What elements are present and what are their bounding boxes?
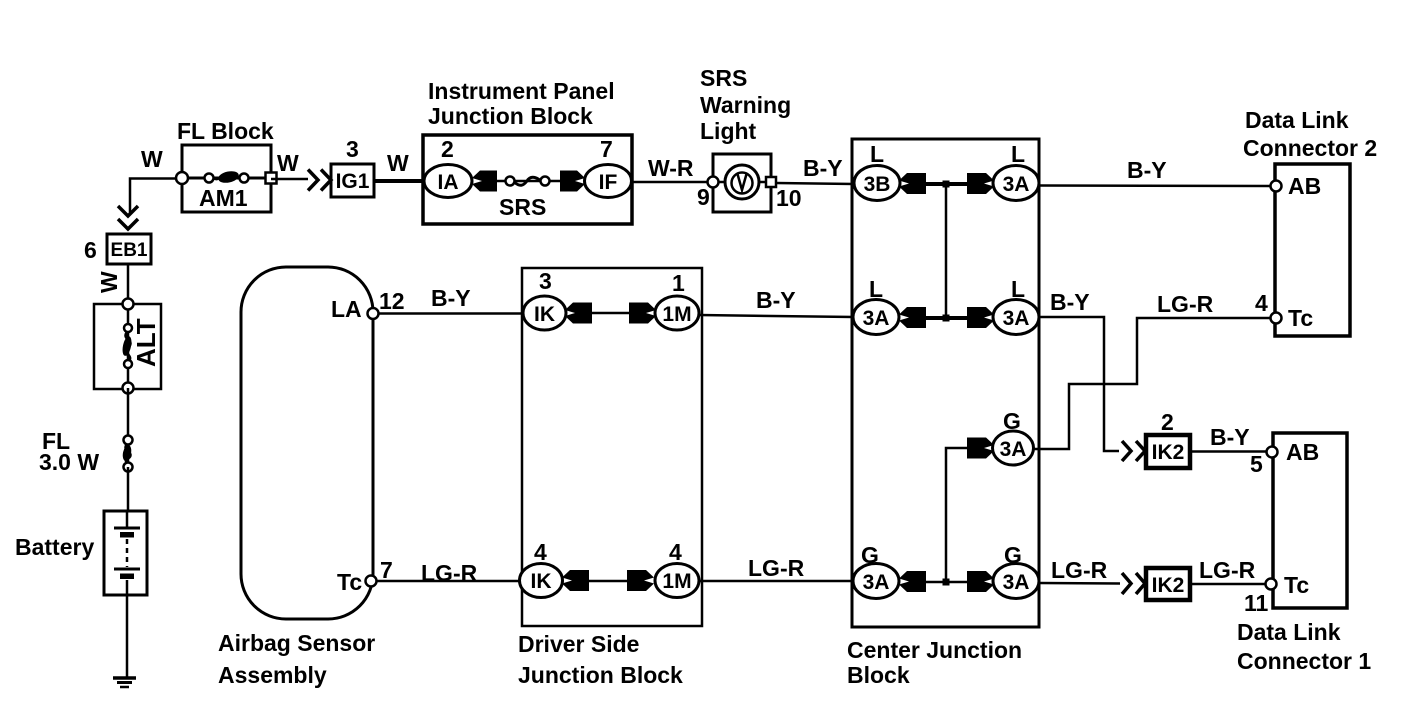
- node FL Block left: [176, 172, 188, 184]
- svg-text:L: L: [870, 141, 884, 167]
- fuse box IK2 lower: [1146, 568, 1190, 600]
- SRS warning light bulb: [713, 154, 771, 212]
- pin 4 label DSJB left: [534, 539, 547, 565]
- wire LA to IK: [373, 312, 524, 315]
- label W rotated: [96, 271, 122, 293]
- junction dot row4: [943, 579, 950, 586]
- label L above row2 right 3A: [1011, 276, 1025, 302]
- label LA: [331, 296, 362, 322]
- svg-text:LA: LA: [331, 296, 362, 322]
- svg-text:Warning: Warning: [700, 92, 791, 118]
- svg-text:3A: 3A: [863, 307, 890, 330]
- svg-text:Connector 1: Connector 1: [1237, 648, 1371, 674]
- label B-Y LA-IK: [431, 285, 471, 311]
- svg-text:Light: Light: [700, 118, 757, 144]
- svg-text:3.0 W: 3.0 W: [39, 449, 99, 475]
- label G above row4 right 3A: [1004, 542, 1022, 568]
- svg-text:9: 9: [697, 184, 710, 210]
- svg-text:LG-R: LG-R: [1051, 557, 1108, 583]
- svg-text:3: 3: [346, 136, 359, 162]
- svg-text:5: 5: [1250, 451, 1263, 477]
- connector 3B: [854, 166, 900, 201]
- svg-text:1M: 1M: [662, 570, 691, 593]
- wire IK2 to DLC1 AB: [1190, 450, 1266, 453]
- wire IG1 to junction block: [374, 179, 423, 183]
- FL Block box: [182, 145, 271, 212]
- fusible link AM1: [182, 169, 271, 211]
- jumper wire row1 CJB: [920, 182, 970, 186]
- wire CJB row1 to DLC2 AB: [1039, 184, 1271, 187]
- terminal AB DLC2: [1271, 173, 1322, 199]
- svg-text:IK: IK: [534, 303, 555, 326]
- wire EB1 to ALT: [127, 264, 130, 304]
- wire IF to warning light: [632, 181, 713, 184]
- label Data Link Connector 2: [1243, 107, 1377, 161]
- down arrows into EB1: [118, 206, 138, 229]
- pin 2 label IK2: [1161, 409, 1174, 435]
- svg-text:B-Y: B-Y: [756, 287, 796, 313]
- svg-text:Driver Side: Driver Side: [518, 631, 639, 657]
- arrow right row4 CJB: [967, 571, 994, 592]
- label Airbag Sensor Assembly: [218, 630, 375, 688]
- pin 4 label DSJB right: [669, 539, 682, 565]
- label B-Y above step: [1050, 289, 1090, 315]
- connector 1M row1: [655, 296, 699, 330]
- svg-text:3A: 3A: [1000, 438, 1027, 461]
- arrow left row1 CJB: [899, 173, 926, 194]
- center junction block box: [852, 139, 1039, 627]
- svg-text:L: L: [1011, 141, 1025, 167]
- label LG-R after IK2 lower: [1199, 557, 1256, 583]
- stepped wire LG-R row3 to DLC2 Tc: [1032, 318, 1270, 449]
- connector 3A row2 left: [853, 300, 899, 335]
- wire 1M to CJB row4: [699, 580, 854, 583]
- feed wire row4 to row3: [946, 448, 968, 582]
- connector IA: [424, 165, 472, 198]
- wire W top-left corner: [130, 179, 182, 214]
- wire light to center junction block: [776, 183, 854, 184]
- fuse box EB1: [107, 234, 151, 264]
- arrows into IK2 upper: [1122, 441, 1145, 461]
- label Tc airbag: [337, 569, 362, 595]
- svg-text:AB: AB: [1286, 439, 1319, 465]
- svg-text:IK2: IK2: [1152, 574, 1185, 597]
- fuse box IK2 upper: [1146, 435, 1190, 468]
- svg-text:2: 2: [441, 136, 454, 162]
- terminal LA: [368, 308, 379, 319]
- pin 6 label: [84, 237, 97, 263]
- svg-text:1M: 1M: [662, 303, 691, 326]
- label Battery: [15, 534, 94, 560]
- svg-text:W-R: W-R: [648, 155, 694, 181]
- svg-text:7: 7: [600, 136, 613, 162]
- arrow left row2 DSJB: [562, 570, 589, 591]
- svg-text:LG-R: LG-R: [1157, 291, 1214, 317]
- alternator ALT box: [94, 304, 161, 389]
- arrow left row1 DSJB: [565, 303, 592, 324]
- connector 3A row4 left: [853, 564, 899, 599]
- svg-text:IK2: IK2: [1152, 441, 1185, 464]
- pin 1 label DSJB: [672, 270, 685, 296]
- svg-text:3: 3: [539, 268, 552, 294]
- svg-text:Center Junction: Center Junction: [847, 637, 1022, 663]
- label Instrument Panel Junction Block: [428, 78, 615, 129]
- label LG-R Tc-IK: [421, 560, 478, 586]
- arrow left row4 CJB: [899, 571, 926, 592]
- svg-text:4: 4: [669, 539, 682, 565]
- svg-text:1: 1: [672, 270, 685, 296]
- label Driver Side Junction Block: [518, 631, 683, 688]
- connector IF: [585, 165, 632, 198]
- svg-text:Tc: Tc: [1288, 305, 1313, 331]
- stepped wire B-Y row2 to IK2: [1039, 317, 1119, 451]
- terminal 10: [766, 177, 802, 211]
- wire Battery to ground: [126, 595, 129, 678]
- svg-text:Airbag Sensor: Airbag Sensor: [218, 630, 375, 656]
- connector 3A row4 right: [993, 564, 1039, 599]
- label LG-R to DLC2: [1157, 291, 1214, 317]
- ground: [113, 678, 136, 687]
- wire IK2 lower to DLC1 Tc: [1190, 583, 1266, 586]
- jumper wire row2 CJB: [920, 316, 970, 320]
- svg-text:IK: IK: [531, 570, 552, 593]
- svg-text:B-Y: B-Y: [1127, 157, 1167, 183]
- label SRS fuse: [499, 194, 546, 220]
- pin 3 label DSJB: [539, 268, 552, 294]
- svg-text:B-Y: B-Y: [431, 285, 471, 311]
- label B-Y after IK2: [1210, 424, 1250, 450]
- label W after IG1: [387, 150, 409, 176]
- arrows into IK2 lower: [1122, 573, 1145, 594]
- svg-text:AM1: AM1: [199, 185, 248, 211]
- svg-text:Data Link: Data Link: [1237, 619, 1341, 645]
- label SRS Warning Light: [700, 65, 791, 144]
- svg-text:12: 12: [379, 288, 405, 314]
- svg-text:Block: Block: [847, 662, 910, 688]
- label L above row1 3A: [1011, 141, 1025, 167]
- label FL 3.0 W: [39, 428, 99, 475]
- svg-text:AB: AB: [1288, 173, 1321, 199]
- label W right of FL Block: [277, 150, 299, 176]
- svg-text:W: W: [387, 150, 409, 176]
- pin 7 label: [600, 136, 613, 162]
- svg-text:SRS: SRS: [700, 65, 747, 91]
- svg-text:IF: IF: [599, 171, 618, 194]
- pin 2 label: [441, 136, 454, 162]
- arrows into IG1: [308, 170, 331, 191]
- svg-text:4: 4: [1255, 290, 1268, 316]
- wire 1M to CJB row2: [699, 315, 854, 317]
- svg-text:W: W: [141, 146, 163, 172]
- data link connector 2 box: [1275, 164, 1350, 336]
- svg-text:SRS: SRS: [499, 194, 546, 220]
- label FL Block: [177, 118, 274, 144]
- svg-text:EB1: EB1: [111, 240, 148, 261]
- label 12: [379, 288, 405, 314]
- wire ALT to FL fusible link: [127, 388, 130, 436]
- svg-text:IA: IA: [438, 171, 459, 194]
- svg-text:Junction Block: Junction Block: [518, 662, 683, 688]
- svg-text:2: 2: [1161, 409, 1174, 435]
- pin 3 label: [346, 136, 359, 162]
- fusible link inside ALT: [121, 304, 133, 388]
- svg-text:Tc: Tc: [337, 569, 362, 595]
- svg-text:B-Y: B-Y: [803, 155, 843, 181]
- label L above row2 left 3A: [869, 276, 883, 302]
- terminal Tc DLC1: [1266, 572, 1310, 598]
- label LG-R before IK2 lower: [1051, 557, 1108, 583]
- data link connector 1 box: [1273, 433, 1347, 608]
- arrow right row IPJB: [560, 171, 585, 192]
- svg-text:Junction Block: Junction Block: [428, 103, 593, 129]
- svg-text:4: 4: [534, 539, 547, 565]
- terminal 9: [697, 177, 719, 211]
- svg-text:IG1: IG1: [336, 170, 370, 193]
- instrument panel junction block box: [423, 135, 632, 224]
- svg-text:3A: 3A: [1003, 307, 1030, 330]
- node FL Block right: [266, 173, 277, 184]
- driver side junction block box: [522, 268, 702, 626]
- label 4 DLC2: [1255, 290, 1268, 316]
- arrow left row2 CJB: [899, 307, 926, 328]
- connector IK row2: [520, 564, 563, 598]
- fuse SRS: [494, 177, 560, 186]
- connector 1M row2: [655, 564, 699, 598]
- svg-text:7: 7: [380, 557, 393, 583]
- arrow right row2 DSJB: [627, 570, 654, 591]
- wire FL Block to IG1: [271, 178, 308, 181]
- junction dot row2: [943, 315, 950, 322]
- fuse box IG1: [331, 164, 374, 197]
- label B-Y 1M-3A: [756, 287, 796, 313]
- connector 3A row1: [993, 166, 1039, 201]
- label 5 DLC1: [1250, 451, 1263, 477]
- terminal Tc airbag: [366, 576, 377, 587]
- terminal AB DLC1: [1267, 439, 1320, 465]
- svg-text:Connector 2: Connector 2: [1243, 135, 1377, 161]
- svg-text:B-Y: B-Y: [1210, 424, 1250, 450]
- arrow right row1 DSJB: [629, 303, 656, 324]
- svg-text:LG-R: LG-R: [1199, 557, 1256, 583]
- arrow left row IPJB: [472, 171, 497, 192]
- svg-text:3A: 3A: [1003, 571, 1030, 594]
- svg-text:LG-R: LG-R: [421, 560, 478, 586]
- jumper wire row4 CJB: [920, 581, 970, 584]
- wire Tc to IK: [371, 580, 524, 583]
- svg-text:Battery: Battery: [15, 534, 94, 560]
- connector 3A row2 right: [993, 300, 1039, 335]
- label LG-R 1M-3A: [748, 555, 805, 581]
- vertical jumper row1 to row2: [945, 184, 948, 318]
- junction dot row1: [943, 181, 950, 188]
- label W left: [141, 146, 163, 172]
- svg-text:Data Link: Data Link: [1245, 107, 1349, 133]
- node at ALT top: [123, 299, 134, 310]
- arrow right row3 CJB: [967, 438, 994, 459]
- connector 3A row3: [993, 431, 1034, 465]
- svg-text:ALT: ALT: [131, 318, 161, 367]
- label G above row4 left 3A: [861, 542, 879, 568]
- arrow right row1 CJB: [967, 173, 994, 194]
- label B-Y after light: [803, 155, 843, 181]
- svg-text:10: 10: [776, 185, 802, 211]
- wire FL link to Battery: [127, 467, 130, 511]
- label Data Link Connector 1: [1237, 619, 1371, 674]
- label G above row3 3A: [1003, 408, 1021, 434]
- svg-text:FL Block: FL Block: [177, 118, 274, 144]
- svg-text:LG-R: LG-R: [748, 555, 805, 581]
- label L above 3B: [870, 141, 884, 167]
- label B-Y to DLC2: [1127, 157, 1167, 183]
- wire CJB row4 to IK2 lower: [1039, 582, 1120, 585]
- svg-text:W: W: [277, 150, 299, 176]
- fusible link FL 3.0 W: [121, 436, 132, 472]
- svg-text:3A: 3A: [863, 571, 890, 594]
- label 7 airbag: [380, 557, 393, 583]
- battery: [104, 511, 147, 595]
- svg-text:3A: 3A: [1003, 173, 1030, 196]
- svg-text:Tc: Tc: [1284, 572, 1309, 598]
- airbag sensor assembly box: [241, 267, 373, 619]
- node at ALT bottom: [123, 383, 134, 394]
- connector IK row1: [523, 296, 566, 330]
- terminal Tc DLC2: [1271, 305, 1314, 331]
- jumper wire row1 DSJB: [589, 312, 632, 315]
- label Center Junction Block: [847, 637, 1022, 688]
- svg-text:B-Y: B-Y: [1050, 289, 1090, 315]
- label 11 DLC1: [1244, 590, 1269, 616]
- svg-text:11: 11: [1244, 590, 1269, 616]
- svg-text:W: W: [96, 271, 122, 293]
- svg-text:Assembly: Assembly: [218, 662, 327, 688]
- jumper wire row2 DSJB: [589, 580, 632, 583]
- svg-text:Instrument Panel: Instrument Panel: [428, 78, 615, 104]
- label W-R: [648, 155, 694, 181]
- arrow right row2 CJB: [967, 307, 994, 328]
- svg-text:3B: 3B: [864, 173, 891, 196]
- svg-text:6: 6: [84, 237, 97, 263]
